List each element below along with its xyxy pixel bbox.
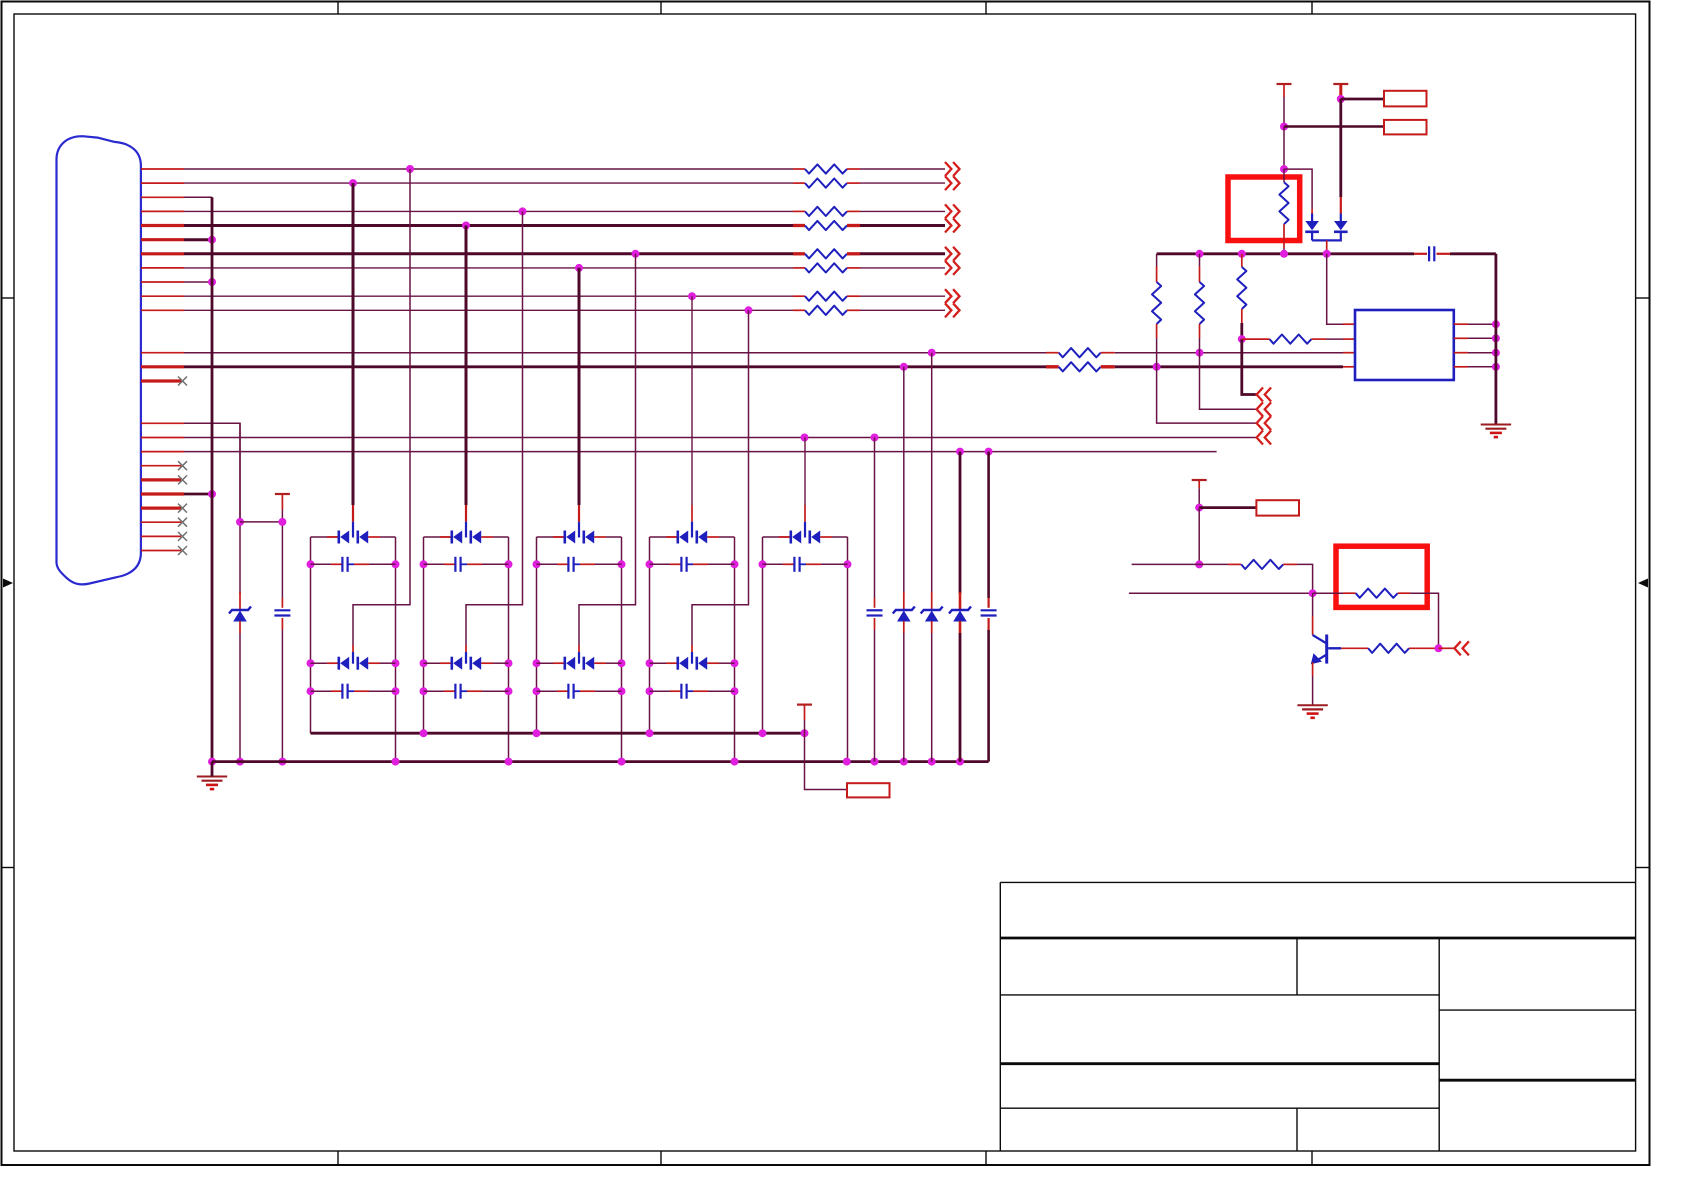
wire [1468,337,1496,339]
wire [461,690,467,692]
wire [793,210,805,212]
left margin ticks [2,297,15,299]
wire [580,563,595,565]
wire [793,168,805,170]
wire [1198,508,1200,565]
wire [1200,353,1257,410]
connector pin row 5 stub [141,224,184,227]
wire [184,182,793,184]
wire [184,352,1046,354]
diode pair D3 [450,531,453,544]
wire [860,252,945,255]
junction [462,222,470,230]
wire [860,224,945,227]
resistor R11 [1279,182,1288,224]
junction [236,518,244,526]
no-connect X [178,546,187,555]
wire [310,537,312,733]
connector pin row 21 stub [141,492,184,495]
resistor R3 [805,207,847,216]
wire [621,537,623,762]
wire [1312,662,1314,676]
wire [707,536,719,538]
right margin ticks [1636,297,1650,299]
junction [533,560,541,568]
wire [793,182,805,184]
junction [1196,349,1204,357]
wire [184,493,212,496]
wire [331,690,342,692]
wire [424,690,445,692]
wire [184,168,793,170]
connector pin row 8 stub [141,267,184,269]
junction [505,560,513,568]
wire [578,522,580,531]
wire [327,662,339,664]
wire [578,652,580,657]
wire [184,252,793,255]
wire [1101,365,1115,368]
off-page connector [1454,641,1469,655]
wire [184,238,212,241]
wire [1297,564,1313,593]
junction [688,292,696,300]
wire [1241,309,1243,323]
no-connect X [178,475,187,484]
wire [368,662,380,664]
wire [1312,676,1314,705]
wire [553,662,565,664]
wire [800,563,806,565]
diode pair D6 [563,657,566,670]
wire [734,537,736,762]
wire [805,733,848,789]
wire [860,210,945,212]
no-connect X [178,504,187,513]
wire [1283,97,1285,127]
junction [956,758,964,766]
wire [440,662,452,664]
wire [184,365,1046,368]
wire [1468,323,1496,325]
ground symbol [1481,424,1511,426]
wire [1454,337,1468,339]
wire [1199,324,1201,338]
wire [368,536,380,538]
wire [666,662,678,664]
capacitor C5 [454,684,456,699]
wire [1339,99,1342,197]
wire [1340,197,1342,214]
wire [606,662,622,664]
wire [352,505,354,522]
wire [806,563,821,565]
junction [420,687,428,695]
wire [1468,352,1496,354]
capacitor C7 [567,684,569,699]
diode pair D1 [337,531,340,544]
wire [1199,563,1228,565]
off-page connector [1257,388,1272,402]
wire [847,309,860,311]
wire [1343,323,1355,325]
wire [1198,488,1200,507]
wire [1312,338,1327,340]
connector pin row 7 stub [141,252,184,255]
off-page connector [945,219,960,233]
diode D11 [1305,221,1319,230]
wire [1341,98,1384,101]
capacitor C8 [680,557,682,572]
wire [537,536,565,538]
junction [900,363,908,371]
junction [1492,334,1500,342]
wire [1339,84,1342,99]
connector pin row 19 stub [141,478,181,481]
wire [1414,253,1427,255]
wire [184,423,240,522]
resistor R2 [805,179,847,188]
top margin ticks [337,2,339,15]
connector pin row 18 stub [141,465,181,467]
wire [793,267,805,269]
capacitor C2 [341,557,343,572]
wire [670,563,681,565]
wire [184,210,793,212]
wire [763,563,784,565]
wire [465,645,467,652]
wire [793,252,805,255]
resistor R17 [1356,589,1398,598]
wire [461,563,467,565]
wire [708,563,735,565]
power flag [797,703,812,705]
bottom margin ticks [337,1151,339,1165]
wire [804,522,806,531]
wire [184,267,793,269]
wire [903,367,905,594]
connector pin row 3 stub [141,196,184,198]
diode D10 [1334,221,1348,230]
no-connect X [178,461,187,470]
wire [1046,352,1059,354]
connector pin row 12 stub [141,352,184,354]
diode pair D2 [337,657,340,670]
wire [424,563,445,565]
wire [1283,169,1285,182]
junction [618,687,626,695]
zener diode Z1 [229,607,251,614]
resistor R15 [1270,335,1312,344]
junction [871,434,879,442]
connector J1 body [57,136,141,584]
wire [860,295,945,297]
zener diode Z2 [893,607,915,614]
resistor R4 [805,221,847,230]
wire [465,226,468,506]
junction [533,729,541,737]
junction [731,687,739,695]
wire [580,690,595,692]
capacitor C11 [981,609,997,611]
wire [931,633,933,762]
wire [860,267,945,269]
wire [184,309,793,311]
junction [236,758,244,766]
wire [444,563,455,565]
wire [666,536,678,538]
connector pin row 15 stub [141,422,184,424]
diode pair D9 [789,531,792,544]
rail wire [311,732,805,735]
wire [239,423,241,594]
junction [392,659,400,667]
rail wire [212,760,989,763]
junction [208,758,216,766]
wire [860,309,945,311]
resistor R6 [805,263,847,272]
off-page connector [1257,431,1272,445]
wire [331,563,342,565]
IC U1 [1355,310,1454,380]
junction [406,165,414,173]
wire [1327,254,1343,324]
wire [1284,169,1312,209]
wire [847,295,860,297]
wire [1156,266,1158,282]
wire [354,563,369,565]
junction [731,758,739,766]
wire [670,690,681,692]
wire [348,563,354,565]
off-page connector [945,289,960,303]
wire [820,536,832,538]
capacitor C10 [867,609,883,611]
junction [1238,335,1246,343]
off-page connector [945,176,960,190]
wire [578,268,581,505]
wire [874,438,876,599]
wire [1240,323,1243,339]
wire [687,563,693,565]
wire [793,309,805,311]
power flag [1192,479,1207,481]
capacitor C4 [454,557,456,572]
wire [184,437,1257,439]
wire [467,563,482,565]
wire [691,645,693,652]
junction [519,207,527,215]
junction [278,518,286,526]
wire [348,690,354,692]
wire [1199,506,1256,509]
wire [1340,214,1342,222]
wire [1312,232,1341,241]
wire [440,536,452,538]
junction [278,758,286,766]
junction [575,264,583,272]
wire [719,536,735,538]
wire [1101,352,1115,354]
no-connect X [178,518,187,527]
wire [354,690,369,692]
wire [352,652,354,657]
wire [719,662,735,664]
wire [762,537,764,733]
wire [380,536,396,538]
wire [606,536,622,538]
junction [392,560,400,568]
wire [707,662,719,664]
no-connect X [178,532,187,541]
wire [847,537,849,762]
wire [311,690,332,692]
connector pin row 1 stub [141,168,184,170]
wire [692,310,749,645]
junction [1309,589,1317,597]
wire [1311,232,1313,241]
wire [1284,125,1384,128]
wire [783,563,794,565]
wire [987,598,989,608]
wire [536,537,538,733]
wire [959,633,962,762]
connector pin row 21 stub [141,521,181,523]
junction [533,687,541,695]
wire [1283,127,1285,170]
wire [847,168,860,170]
junction [618,659,626,667]
junction [1323,250,1331,258]
capacitor C10 [793,557,795,572]
wire [691,505,693,522]
wire [1156,338,1158,367]
resistor R18 [1368,644,1409,653]
wire [804,705,806,720]
wire [847,224,860,227]
diode pair D5 [563,531,566,544]
wire [1311,209,1313,214]
wire [1398,592,1410,594]
power flag [275,493,290,495]
wire [1242,339,1257,394]
junction [1492,363,1500,371]
wire [352,183,355,505]
wire [1046,365,1059,368]
junction [1238,250,1246,258]
wire [804,505,806,522]
wire [847,210,860,212]
junction [505,758,513,766]
label box [1256,500,1299,515]
wire [311,662,339,664]
capacitor C9 [680,684,682,699]
resistor R5 [805,249,847,258]
wire [1454,323,1468,325]
junction [632,250,640,258]
resistor R7 [805,292,847,301]
wire [1409,647,1439,649]
junction [208,490,216,498]
wire [281,494,283,510]
junction [307,560,315,568]
wire [959,621,962,633]
junction [420,659,428,667]
off-page connector [945,162,960,176]
junction [801,729,809,737]
capacitor C1 [274,609,290,611]
wire [793,295,805,297]
wire [832,536,848,538]
wire [1312,616,1314,635]
wire [424,536,452,538]
wire [594,536,606,538]
wire [481,536,493,538]
wire [482,563,509,565]
connector pin row 10 stub [141,295,184,297]
ground bus wire [211,197,214,761]
wire [1283,224,1285,248]
wire [184,451,1217,453]
connector pin row 13 stub [141,365,184,368]
junction [533,659,541,667]
wire [239,633,241,762]
wire [1439,647,1455,649]
resistor R12 [1152,282,1161,324]
wire [352,522,354,531]
wire [793,224,805,227]
wire [1115,365,1343,368]
wire [311,563,332,565]
wire [578,505,580,522]
junction [505,687,513,695]
junction [646,729,654,737]
off-page connector [1257,416,1272,430]
wire [1341,647,1368,649]
wire [1157,367,1257,423]
wire [1343,366,1355,368]
wire [574,690,580,692]
junction [208,236,216,244]
wire [931,621,933,633]
wire [595,690,622,692]
wire [1199,338,1201,353]
resistor R10 [1059,362,1101,371]
wire [508,537,510,762]
left edge arrow [3,579,13,588]
wire [860,168,945,170]
wire [444,690,455,692]
wire [369,563,396,565]
wire [687,690,693,692]
diode pair D4 [450,657,453,670]
wire [650,662,678,664]
wire [874,630,876,762]
junction [307,659,315,667]
resistor R1 [805,164,847,173]
junction [844,560,852,568]
wire [931,353,933,594]
junction [745,306,753,314]
wire [959,452,962,594]
wire [493,662,509,664]
connector pin row 9 stub [141,281,184,283]
junction [928,758,936,766]
junction [759,729,767,737]
junction [871,758,879,766]
highlight box [1228,177,1300,241]
wire [987,452,990,598]
